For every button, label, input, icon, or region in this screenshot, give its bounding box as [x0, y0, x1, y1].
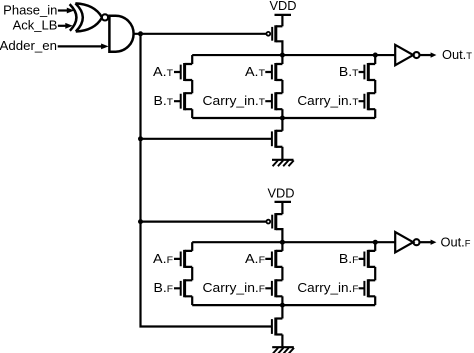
svg-text:Carry_in.F: Carry_in.F — [203, 280, 266, 295]
svg-text:Carry_in.F: Carry_in.F — [297, 280, 358, 295]
svg-text:VDD: VDD — [270, 0, 297, 13]
svg-text:VDD: VDD — [268, 185, 295, 200]
svg-text:Ack_LB: Ack_LB — [13, 18, 58, 33]
svg-text:Carry_in.T: Carry_in.T — [203, 93, 266, 108]
svg-text:Adder_en: Adder_en — [0, 38, 57, 53]
svg-text:Carry_in.T: Carry_in.T — [297, 93, 358, 108]
svg-text:Phase_in: Phase_in — [3, 2, 57, 17]
